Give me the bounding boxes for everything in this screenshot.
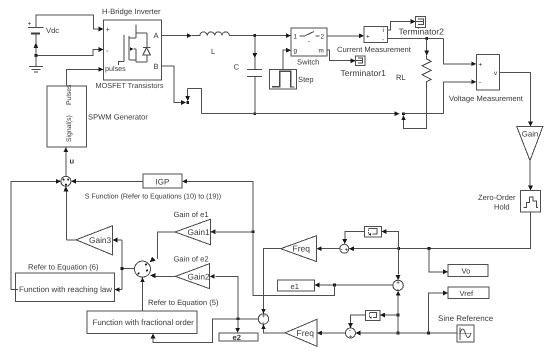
wire S2 output to gain3 and reaching law bbox=[112, 238, 134, 292]
wire v output to gain bbox=[500, 72, 533, 126]
wire Vdc+ to H-bridge + bbox=[36, 15, 104, 31]
svg-text:IGP: IGP bbox=[156, 177, 170, 186]
wire e2 net to fractional order input bbox=[151, 319, 259, 343]
svg-text:Voltage Measurement: Voltage Measurement bbox=[449, 94, 524, 103]
svg-text:Gain: Gain bbox=[522, 130, 538, 139]
wire gain to zero-order hold bbox=[528, 161, 533, 191]
node junction RL top bbox=[425, 37, 428, 40]
wire IGP output to sum S1 bbox=[71, 179, 143, 184]
svg-text:e1: e1 bbox=[291, 282, 299, 291]
inductor L bbox=[192, 32, 237, 56]
wire fractional order output to S2 bottom bbox=[140, 277, 145, 311]
wire switch m to terminator1 bbox=[327, 50, 356, 63]
svg-text:+: + bbox=[349, 334, 353, 341]
node junction at Vdc- bbox=[35, 54, 38, 57]
wire sumB output to e1 bbox=[319, 284, 392, 286]
dc source Vdc bbox=[28, 21, 60, 36]
wire Vdc- to H-bridge - bbox=[34, 34, 104, 55]
svg-text:-: - bbox=[382, 37, 384, 44]
block e2 bbox=[219, 333, 258, 342]
svg-text:-: - bbox=[341, 246, 343, 253]
wire inductor to switch port 1 bbox=[229, 33, 291, 38]
terminator1 bbox=[356, 56, 366, 66]
svg-text:+: + bbox=[106, 25, 111, 34]
current measurement block bbox=[364, 27, 387, 44]
voltage measurement block bbox=[476, 54, 499, 90]
node junction delay1 tap bbox=[397, 247, 400, 250]
svg-text:Gain2: Gain2 bbox=[188, 272, 211, 282]
node junction sine riser bbox=[397, 332, 400, 335]
svg-text:H-Bridge Inverter: H-Bridge Inverter bbox=[102, 7, 161, 16]
mosfet icon inside U1 bbox=[119, 25, 148, 66]
wire to memory delay1 bbox=[381, 229, 398, 248]
memory block delay2 bbox=[366, 310, 380, 320]
wire delay2 output to sumD top bbox=[348, 315, 366, 328]
gain1 triangle bbox=[175, 219, 210, 244]
node junction delay2 tap bbox=[397, 314, 400, 317]
wire ZOH output long feedback bbox=[349, 212, 531, 251]
svg-text:Sine Reference: Sine Reference bbox=[438, 314, 494, 323]
wire sumA to Freq top bbox=[317, 246, 340, 251]
wire gain3 output to S1 bbox=[64, 186, 77, 240]
wire sine to sumD bbox=[356, 331, 458, 336]
node junction e2 riser bbox=[237, 317, 240, 320]
sum block S1 bbox=[61, 176, 71, 186]
wire freq bottom output to sumC bbox=[261, 324, 285, 333]
svg-text:Gain1: Gain1 bbox=[188, 227, 211, 237]
wire to gain1 bbox=[210, 229, 253, 234]
svg-text:MOSFET Transistors: MOSFET Transistors bbox=[96, 81, 164, 90]
svg-text:Vo: Vo bbox=[462, 267, 471, 276]
svg-text:Terminator1: Terminator1 bbox=[341, 68, 387, 78]
svg-text:Signal(s): Signal(s) bbox=[66, 115, 73, 142]
svg-text:e2: e2 bbox=[233, 333, 241, 342]
svg-text:2: 2 bbox=[321, 34, 325, 41]
wire e1 riser to IGP and Gain1 bbox=[187, 181, 334, 295]
svg-text:B: B bbox=[154, 62, 159, 71]
svg-text:Refer to Equation (5): Refer to Equation (5) bbox=[148, 298, 219, 307]
node junction at capacitor tap bbox=[253, 34, 256, 37]
wire to voltage measurement plus bbox=[444, 39, 477, 67]
svg-text:Gain3: Gain3 bbox=[89, 235, 112, 245]
wire into sumB top bbox=[396, 248, 401, 280]
wire gain2 output to S2 bbox=[150, 273, 175, 278]
wire i to terminator2 bbox=[387, 19, 415, 30]
wire SPWM output to pulses port bbox=[67, 67, 104, 86]
svg-text:Function with fractional order: Function with fractional order bbox=[93, 318, 195, 327]
zero-order hold block bbox=[520, 191, 540, 213]
resistor RL bbox=[396, 56, 431, 88]
svg-text:Gain of e2: Gain of e2 bbox=[174, 255, 209, 264]
svg-text:m: m bbox=[319, 48, 324, 55]
node junction Vo tap bbox=[428, 247, 431, 250]
svg-text:i: i bbox=[383, 27, 384, 34]
node junction B net bbox=[186, 101, 189, 104]
switch block bbox=[291, 28, 327, 56]
sum junction sumA bbox=[340, 244, 349, 253]
sum block sumC (e2) bbox=[258, 313, 268, 327]
svg-text:Freq: Freq bbox=[297, 328, 315, 338]
gain triangle (down) bbox=[517, 127, 543, 161]
svg-text:Vref: Vref bbox=[460, 289, 475, 298]
memory block delay1 bbox=[364, 227, 381, 237]
wire sine net to delay2 bbox=[380, 313, 398, 318]
block function with reaching law bbox=[15, 273, 114, 301]
svg-text:-: - bbox=[479, 79, 481, 86]
wire rail to voltage measurement minus bbox=[404, 79, 477, 113]
svg-text:Hold: Hold bbox=[494, 203, 510, 212]
node junction gain1 tap bbox=[252, 230, 255, 233]
svg-text:L: L bbox=[211, 47, 215, 56]
svg-text:C: C bbox=[234, 63, 240, 72]
wire step to switch g bbox=[283, 48, 291, 70]
H-bridge inverter block U1 (MOSFET Transistors) bbox=[104, 20, 162, 80]
svg-text:Vdc: Vdc bbox=[46, 26, 59, 35]
sum block sumD bbox=[346, 327, 356, 341]
wire bottom rail bbox=[202, 111, 400, 116]
svg-text:+: + bbox=[366, 33, 370, 40]
svg-text:+: + bbox=[28, 21, 32, 28]
wire e2 riser up to gain2 bbox=[210, 274, 238, 319]
wire to Vo bbox=[429, 248, 448, 274]
block function with fractional order bbox=[87, 311, 197, 334]
node junction Vref tap bbox=[427, 332, 430, 335]
svg-text:u: u bbox=[70, 157, 75, 166]
svg-text:Pulses: Pulses bbox=[66, 84, 73, 105]
freq gain top triangle bbox=[281, 236, 317, 262]
wire delay1 output to sumA bbox=[342, 232, 364, 245]
svg-text:SPWM Generator: SPWM Generator bbox=[88, 113, 148, 122]
wire gain1 output to S2 bbox=[150, 232, 175, 262]
wire Freq top output to sumC bbox=[261, 249, 281, 314]
IGP block bbox=[143, 174, 182, 188]
wire reaching law output to S1 bbox=[11, 179, 61, 290]
svg-text:+: + bbox=[479, 61, 483, 68]
wire B node riser bbox=[185, 88, 201, 113]
svg-text:Switch: Switch bbox=[297, 58, 319, 67]
wire switch 2 to current measurement bbox=[327, 33, 364, 38]
node junction S2 out bbox=[121, 267, 124, 270]
wire S1 output u to SPWM bbox=[64, 147, 75, 176]
svg-text:1: 1 bbox=[294, 34, 298, 41]
wire e2 riser down to e2 block bbox=[235, 319, 240, 333]
svg-text:pulses: pulses bbox=[105, 64, 126, 73]
node junction e1 riser bbox=[333, 284, 336, 287]
wire sine riser to sumB bottom bbox=[396, 291, 401, 333]
svg-text:Function with reaching law: Function with reaching law bbox=[19, 285, 112, 294]
wire down to capacitor bbox=[252, 36, 257, 70]
wire B output zigzag bbox=[162, 66, 187, 105]
svg-text:Terminator2: Terminator2 bbox=[399, 27, 445, 37]
block e1 bbox=[278, 280, 315, 291]
wire RL bottom loop bbox=[401, 88, 427, 128]
svg-text:Step: Step bbox=[298, 75, 314, 84]
SPWM generator block bbox=[47, 84, 86, 147]
gain2 triangle bbox=[175, 264, 210, 289]
node junction cap-rail bbox=[253, 112, 256, 115]
wire sumD output to freq bottom bbox=[317, 331, 345, 336]
svg-text:Refer to Equation (6): Refer to Equation (6) bbox=[28, 263, 99, 272]
gain3 triangle bbox=[76, 226, 112, 255]
capacitor C bbox=[234, 63, 263, 77]
svg-text:RL: RL bbox=[396, 73, 406, 82]
sine wave source block bbox=[457, 325, 474, 342]
wire CM minus output bbox=[387, 38, 443, 40]
freq gain bottom triangle bbox=[285, 319, 317, 346]
step block bbox=[270, 69, 314, 89]
sum block sumB (e1) bbox=[393, 279, 403, 292]
svg-text:g: g bbox=[294, 48, 298, 55]
terminator2 bbox=[416, 16, 426, 27]
wire capacitor to bottom rail bbox=[254, 77, 256, 114]
svg-text:Freq: Freq bbox=[293, 244, 311, 254]
wire down to RL bbox=[424, 39, 429, 56]
diode icon inside U1 bbox=[143, 33, 150, 62]
sum block S2 bbox=[135, 261, 151, 277]
svg-text:Current Measurement: Current Measurement bbox=[337, 45, 412, 54]
svg-text:+: + bbox=[345, 247, 349, 254]
block Vref bbox=[448, 287, 489, 299]
ground bbox=[29, 56, 43, 73]
node junction rail-RL bbox=[402, 112, 405, 115]
svg-text:Gain of e1: Gain of e1 bbox=[174, 210, 209, 219]
wire A output to inductor bbox=[162, 33, 193, 38]
block Vo bbox=[448, 265, 488, 277]
svg-text:Zero-Order: Zero-Order bbox=[478, 193, 516, 202]
wire to Vref bbox=[429, 291, 449, 333]
svg-text:S Function (Refer to Equations: S Function (Refer to Equations (10) to (… bbox=[85, 193, 221, 201]
